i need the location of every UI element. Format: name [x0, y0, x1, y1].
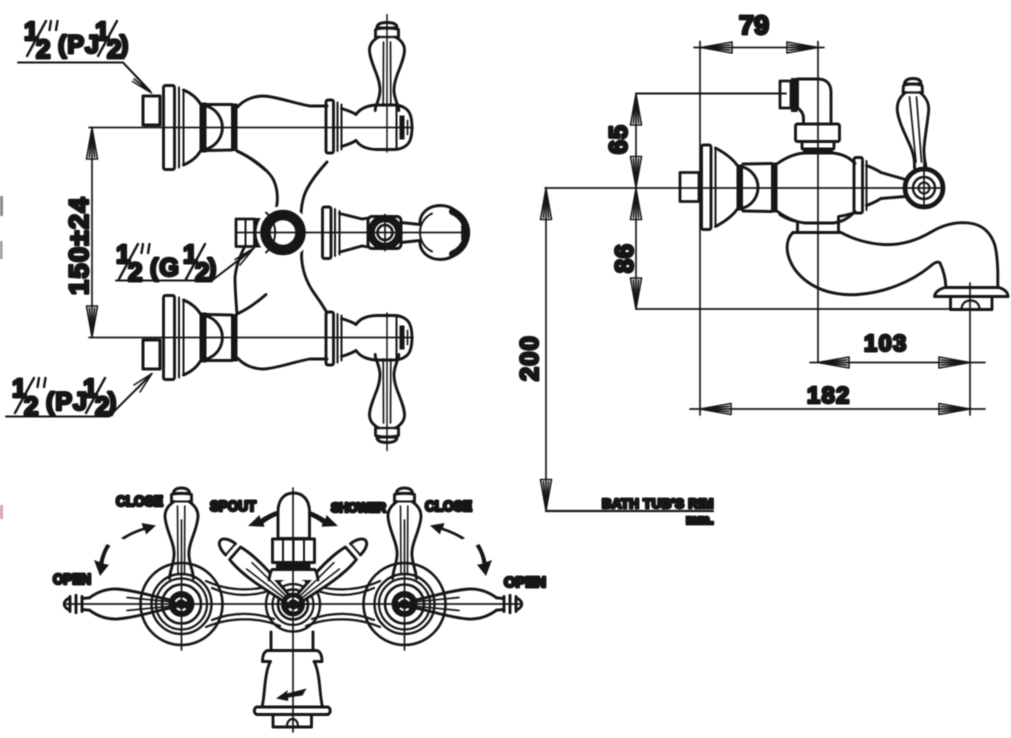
diverter dark band — [276, 563, 311, 569]
diverter dome — [278, 493, 310, 539]
side seat thick bar — [737, 165, 744, 211]
right side lever — [415, 589, 522, 619]
side centerline — [545, 187, 944, 189]
dim 182 line — [690, 408, 985, 410]
right valve rings — [364, 563, 446, 645]
outlet swoosh arrow — [276, 689, 307, 702]
rotate arrow left lower — [94, 544, 111, 576]
svg-text:mm.: mm. — [686, 512, 714, 527]
side union thick bar — [771, 163, 778, 213]
outlet torus ring — [257, 206, 310, 259]
svg-text:OPEN: OPEN — [504, 575, 546, 591]
side bonnet taper — [867, 166, 882, 206]
leader text bottom-left: 1/2"(PJ1/2) — [12, 373, 116, 421]
top valve unit — [143, 15, 412, 171]
diverter taper — [340, 214, 363, 253]
svg-text:150±24: 150±24 — [64, 196, 94, 295]
dim 150±24 line — [91, 128, 93, 338]
side escutcheon taper — [716, 148, 738, 227]
svg-text:200: 200 — [516, 335, 544, 381]
plan centerline left — [181, 520, 183, 650]
leader line top-left — [18, 63, 150, 92]
extension line spout tip — [969, 283, 971, 415]
svg-text:(PJ: (PJ — [46, 388, 88, 416]
side wall nipple — [680, 173, 699, 202]
svg-text:2: 2 — [36, 34, 50, 64]
svg-text:OPEN: OPEN — [53, 572, 91, 588]
leader arrow top-left — [133, 77, 152, 93]
leader arrow bottom-left — [134, 374, 152, 393]
outlet collar — [263, 651, 323, 662]
handle hub rings — [905, 169, 943, 207]
svg-text:CLOSE: CLOSE — [425, 499, 472, 515]
elbow union nut — [796, 124, 840, 142]
side handle ridges — [910, 97, 922, 162]
dim 150±24 arrows — [87, 128, 98, 159]
outlet thick bar — [255, 218, 263, 248]
middle valve rings — [266, 578, 320, 632]
trunk left edge — [235, 151, 277, 314]
side cap cone — [881, 173, 906, 199]
elbow body — [798, 79, 832, 124]
svg-text:(G: (G — [150, 254, 180, 282]
lever neck — [401, 223, 420, 243]
svg-text:CLOSE: CLOSE — [116, 494, 163, 510]
body wavy outline gap1 bottom — [206, 614, 280, 627]
spout branch — [780, 214, 852, 233]
side bonnet collar — [854, 158, 867, 214]
plan centerline right — [404, 520, 406, 650]
svg-text:SHOWER: SHOWER — [331, 500, 387, 515]
spout label arrow — [248, 511, 278, 527]
svg-text:103: 103 — [864, 330, 908, 356]
leader line bottom-left — [6, 377, 149, 417]
elbow top line — [636, 93, 786, 95]
bottom valve unit (mirrored) — [143, 295, 412, 451]
diverter hex nut — [273, 539, 315, 563]
spout inner bend — [940, 263, 946, 287]
svg-text:79: 79 — [739, 10, 769, 40]
right valve dark center — [392, 591, 418, 617]
body wavy outline gap2 top — [306, 581, 380, 595]
side handle body — [897, 93, 928, 169]
rotate arrow right upper — [430, 523, 465, 540]
outlet bell — [262, 662, 323, 708]
svg-text:182: 182 — [807, 382, 851, 408]
elbow dark band — [803, 149, 833, 155]
diverter collar plates — [323, 207, 340, 259]
centerline top row — [89, 121, 413, 135]
centerline bottom row — [89, 331, 413, 345]
boss ring — [371, 215, 399, 251]
svg-text:65: 65 — [605, 124, 633, 154]
spout neck base line — [793, 231, 841, 234]
boss vertical centerline — [384, 215, 386, 251]
spout bottom ref line — [636, 308, 970, 310]
outlet bump — [287, 719, 298, 727]
side union body — [743, 164, 772, 212]
plan centerline horizontal — [65, 603, 522, 605]
diverter skirt — [269, 570, 318, 581]
svg-text:BATH TUB'S RIM: BATH TUB'S RIM — [602, 496, 714, 511]
leader arrow center — [235, 248, 254, 265]
middle valve dark center — [281, 593, 305, 617]
leader line center — [116, 251, 251, 281]
trunk right edge — [301, 162, 327, 313]
leader text top-left: 1/2"(PJ1/2) — [24, 16, 128, 64]
body wavy outline gap1 top — [206, 581, 280, 595]
left side lever — [64, 589, 171, 619]
shower elbow nipple — [780, 81, 791, 108]
extension line left — [699, 42, 701, 416]
bath tub rim line — [546, 510, 713, 512]
rotate arrow left upper — [121, 523, 156, 540]
svg-text:2: 2 — [128, 257, 142, 287]
outlet centerline — [237, 226, 468, 240]
outlet flange — [254, 707, 330, 715]
left up handle — [165, 488, 198, 579]
outlet lower rect — [273, 715, 312, 728]
plan centerline middle — [292, 488, 294, 732]
outlet nipple — [236, 219, 255, 247]
rotate arrow right lower — [476, 544, 493, 576]
right up handle — [388, 488, 421, 579]
svg-text:86: 86 — [611, 243, 639, 273]
aerator bump — [962, 301, 980, 310]
svg-text:): ) — [120, 31, 128, 59]
dim 65/86 line — [635, 94, 637, 310]
hub vertical centerline — [923, 151, 925, 208]
aerator flange — [935, 288, 1009, 297]
shower label arrow — [308, 511, 338, 527]
body wavy outline gap2 bottom — [306, 614, 380, 627]
spout upper outline — [841, 223, 998, 287]
side escutcheon plates — [702, 145, 716, 230]
right angled lever — [290, 533, 372, 608]
spout lower outline — [787, 233, 940, 295]
left valve dark center — [169, 591, 195, 617]
aerator body — [951, 297, 993, 310]
left valve rings — [141, 563, 223, 645]
svg-text:SPOUT: SPOUT — [210, 499, 256, 515]
svg-text:(PJ: (PJ — [58, 31, 100, 59]
leader text center: 1/2"(G 1/2) — [116, 239, 216, 287]
lever end knob — [420, 206, 467, 260]
dim 103 line — [810, 362, 985, 364]
elbow lower ring — [802, 142, 834, 150]
extension line shower center — [817, 42, 819, 363]
diverter lever boss — [362, 217, 401, 249]
dim 79 line — [694, 47, 824, 49]
edge artifact marks — [0, 196, 3, 519]
elbow thick bar — [791, 78, 798, 112]
dim 200 line — [545, 188, 547, 511]
side body barrel — [778, 153, 856, 223]
outlet neck — [271, 632, 313, 650]
side handle knob — [903, 79, 923, 93]
side seat dome arc — [743, 167, 758, 208]
left angled lever — [214, 533, 296, 608]
